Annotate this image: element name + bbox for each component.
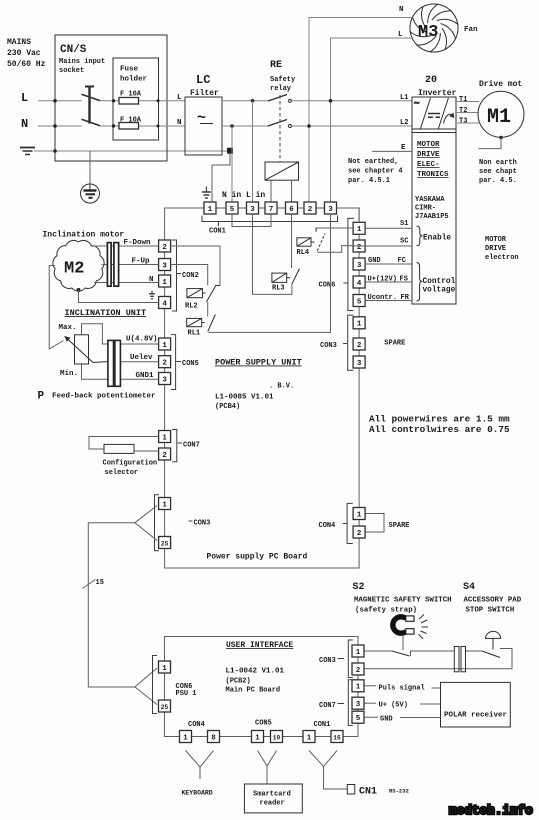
connector CON1 pin 3 at x252.5	[247, 202, 259, 214]
connector CON7 UI bracket	[348, 680, 353, 726]
connector CON7 pin 1	[159, 431, 171, 443]
connector CON6 pin 4	[353, 276, 365, 288]
relay contact RL1	[208, 315, 216, 332]
svg-text:Enable: Enable	[423, 235, 451, 243]
connector CON4 pin 2	[353, 526, 365, 538]
svg-text:3: 3	[357, 262, 362, 270]
svg-text:Main PC Board: Main PC Board	[226, 687, 281, 695]
fan M3 blades	[410, 4, 459, 52]
svg-text:YASKAWA: YASKAWA	[415, 196, 445, 204]
pot terminal block	[108, 340, 121, 386]
svg-text:DRIVE: DRIVE	[485, 245, 506, 253]
svg-text:1: 1	[162, 665, 167, 673]
wire N mains	[38, 125, 82, 127]
svg-text:Puls signal: Puls signal	[379, 685, 425, 693]
svg-text:Mains input: Mains input	[59, 58, 105, 66]
svg-text:medteh.info: medteh.info	[449, 803, 533, 818]
svg-text:Control: Control	[423, 278, 456, 286]
svg-text:see chapt: see chapt	[479, 168, 517, 176]
connector CON3 pin 1	[159, 498, 171, 510]
svg-text:S4: S4	[463, 582, 475, 593]
svg-text:reader: reader	[260, 800, 285, 808]
connector CON3 UI bracket	[348, 640, 353, 678]
connector CON7 bracket	[172, 430, 177, 462]
connector CON2 pin 3	[159, 259, 171, 271]
wire M2 F-Up	[102, 264, 159, 266]
connector CON6 UI pin 1	[159, 661, 171, 673]
connector CON3 spare pin 1	[353, 317, 365, 329]
svg-text:RE: RE	[270, 60, 282, 71]
svg-text:5: 5	[230, 206, 235, 214]
connector CON6 label	[344, 282, 348, 284]
connector CON7 UI pin 5	[352, 711, 364, 723]
CN/S mains input socket box	[55, 35, 167, 161]
wire L in to pin3	[252, 101, 254, 203]
svg-text:electron: electron	[485, 254, 519, 262]
svg-text:L2: L2	[400, 119, 408, 127]
inverter U1 box	[412, 97, 456, 304]
wire RL4 top to CON6 pin1	[316, 227, 353, 229]
wire CON1 pin3 down to RL1	[208, 214, 330, 332]
brace control voltage	[417, 263, 423, 302]
svg-text:DRIVE: DRIVE	[417, 151, 440, 159]
wire RL2 to RL1	[207, 302, 209, 317]
wire CON7 pin1 to resistor	[89, 437, 159, 450]
svg-text:1: 1	[183, 734, 188, 742]
wire CON4 spare loop	[366, 514, 385, 533]
connector CON7 UI pin 1	[352, 680, 364, 692]
svg-text:1: 1	[208, 206, 213, 214]
svg-text:L: L	[177, 94, 182, 102]
svg-text:Max.: Max.	[59, 324, 77, 332]
svg-text:socket: socket	[59, 67, 84, 75]
svg-text:Drive mot: Drive mot	[479, 80, 522, 89]
svg-text:10: 10	[273, 734, 281, 741]
svg-text:MAGNETIC SAFETY SWITCH: MAGNETIC SAFETY SWITCH	[354, 597, 452, 605]
svg-text:TRONICS: TRONICS	[417, 171, 449, 179]
drive motor M1	[478, 80, 524, 137]
svg-text:8: 8	[211, 734, 216, 742]
connector CON5 UI pin 10	[271, 731, 283, 743]
svg-text:CON4: CON4	[188, 721, 205, 729]
wire N switch to fuse	[100, 125, 185, 127]
svg-text:MAINS: MAINS	[7, 38, 31, 47]
svg-text:selector: selector	[105, 469, 139, 477]
svg-text:CIMR-: CIMR-	[415, 205, 436, 213]
svg-text:1: 1	[255, 734, 260, 742]
connector CON5 bracket	[171, 335, 176, 390]
connector CON6 pin 1	[353, 222, 365, 234]
svg-text:1: 1	[162, 279, 167, 287]
earth circle symbol below CN/S	[81, 151, 100, 203]
connector CON1 pin 3 at x330.5	[325, 202, 337, 214]
svg-text:CON1: CON1	[209, 228, 226, 236]
connector CON1 label	[218, 222, 220, 226]
wire M2 to CON2 pin4	[79, 290, 159, 303]
wire GND polar	[365, 716, 379, 718]
svg-text:L1-0042 V1.01: L1-0042 V1.01	[226, 668, 285, 676]
svg-text:CON6: CON6	[319, 281, 336, 289]
svg-text:2: 2	[356, 667, 361, 675]
svg-text:N in L in: N in L in	[222, 191, 265, 200]
power supply PC board outline	[165, 208, 360, 568]
cable count tick	[83, 580, 96, 589]
connector CON7 UI label	[338, 703, 345, 705]
relay contact RL2	[206, 285, 220, 302]
svg-text:USER INTERFACE: USER INTERFACE	[226, 641, 293, 650]
svg-text:FR: FR	[401, 294, 410, 302]
svg-text:N: N	[149, 276, 154, 284]
svg-text:T2: T2	[459, 107, 467, 115]
smartcard reader box	[244, 784, 302, 813]
connector CON6 bracket	[348, 218, 354, 310]
svg-text:Feed-back potentiometer: Feed-back potentiometer	[52, 393, 156, 401]
wire CON1 pin6 to RL3 contact	[291, 214, 293, 268]
wire magnet actuator	[402, 636, 404, 650]
svg-text:1: 1	[357, 321, 362, 329]
motor drive electronics text	[417, 141, 449, 179]
RE actuator dashed link	[279, 95, 281, 162]
connector CON2 bracket	[172, 240, 177, 311]
connector CON2 label	[177, 273, 181, 275]
relay coil RL3	[272, 273, 290, 282]
wire L RE to inverter L1	[290, 100, 412, 102]
wire S4 return	[365, 649, 513, 669]
connector CON1 pin 2 at x310	[304, 202, 316, 214]
yaskawa type text	[415, 196, 449, 221]
svg-text:3: 3	[162, 376, 167, 384]
svg-text:Non earth: Non earth	[479, 159, 517, 167]
svg-text:N: N	[21, 117, 28, 131]
RE safety relay	[270, 60, 296, 93]
connector CON3 UI label	[338, 658, 345, 660]
connector CON5 UI pin 1	[252, 731, 264, 743]
connector CON6 pin 2	[353, 240, 365, 252]
connector CON6 pin 5	[353, 295, 365, 307]
cable joint S2	[454, 647, 465, 672]
junction dots mains	[53, 99, 159, 153]
wire CON1 pin3 to CON6 pin1	[337, 208, 360, 222]
svg-text:U+(12V): U+(12V)	[368, 276, 397, 284]
svg-text:Safety: Safety	[270, 76, 296, 84]
svg-text:6: 6	[289, 206, 294, 214]
wire M2 N	[94, 282, 159, 284]
wire U+ 5V	[365, 702, 377, 704]
svg-text:1: 1	[356, 649, 361, 657]
svg-text:CON3: CON3	[319, 657, 336, 665]
relay coil RL2	[187, 289, 206, 298]
svg-text:E: E	[401, 144, 406, 152]
motor M2	[53, 240, 104, 291]
svg-text:5: 5	[356, 715, 361, 723]
junction dot N in	[230, 124, 234, 128]
connector CON2 pin 2	[159, 240, 171, 252]
wire RE coil to pin6	[291, 180, 293, 202]
svg-text:POWER SUPPLY UNIT: POWER SUPPLY UNIT	[215, 358, 302, 368]
svg-text:par. 4.5.1: par. 4.5.1	[348, 177, 390, 185]
cable crow foot UI CON6	[135, 668, 157, 705]
resistor configuration selector	[104, 444, 134, 453]
connector CON7 pin 2	[159, 448, 171, 460]
connector CON5 pin 3	[159, 373, 171, 385]
svg-text:(PCB2): (PCB2)	[226, 678, 251, 686]
RE coil box	[265, 162, 299, 180]
ground mains	[20, 148, 35, 155]
connector CON3 spare label	[343, 343, 347, 345]
relay coil RL4	[297, 238, 315, 246]
svg-text:N: N	[177, 119, 182, 127]
svg-text:Uelev: Uelev	[130, 354, 153, 362]
connector CON1 UI pin 1	[303, 731, 315, 743]
svg-text:1: 1	[357, 511, 362, 519]
wire link vertical	[219, 246, 221, 286]
svg-text:20: 20	[425, 75, 437, 86]
POLAR receiver box	[441, 682, 511, 727]
svg-text:P: P	[38, 391, 45, 403]
connector CON6 UI pin 25	[159, 700, 171, 712]
connector CON6 pin 3	[353, 258, 365, 270]
svg-text:2: 2	[357, 342, 362, 350]
svg-text:~: ~	[414, 99, 419, 109]
brace enable	[417, 226, 423, 246]
svg-text:SC: SC	[400, 238, 408, 246]
svg-text:U+ (5V): U+ (5V)	[379, 702, 408, 710]
wire RL3 to CON1 pin3 vertical	[253, 284, 292, 294]
svg-text:2: 2	[357, 244, 362, 252]
svg-text:CON2: CON2	[182, 272, 199, 280]
svg-text:L: L	[21, 91, 28, 105]
svg-text:CON1: CON1	[314, 721, 331, 729]
wire N filter to RE contact	[222, 125, 268, 127]
wire S1 enable	[365, 227, 412, 229]
cable crow foot smartcard	[258, 751, 277, 767]
svg-text:GND: GND	[368, 257, 381, 265]
wire earth mains	[34, 150, 227, 152]
svg-text:relay: relay	[270, 85, 292, 93]
svg-text:2: 2	[357, 530, 362, 538]
svg-text:3: 3	[328, 206, 333, 214]
svg-text:holder: holder	[120, 76, 147, 84]
junction dot M2 bottom	[77, 288, 81, 292]
svg-text:CON4: CON4	[319, 522, 336, 530]
fan M3	[410, 4, 478, 52]
junction dot L in	[251, 99, 255, 103]
connector CON3 spare pin 2	[353, 338, 365, 350]
svg-text:16: 16	[333, 734, 341, 741]
connector CON1 pin 7 at x271	[265, 202, 277, 214]
connector CON5 label	[176, 361, 181, 363]
svg-text:CON7: CON7	[183, 442, 200, 450]
svg-text:RL3: RL3	[272, 284, 285, 292]
svg-text:RL1: RL1	[188, 330, 201, 338]
svg-text:CON5: CON5	[255, 720, 272, 728]
connector CON3 UI pin 2	[352, 663, 364, 675]
note not earthed	[348, 158, 403, 185]
ground symbol at CON1 pin1	[202, 187, 211, 199]
svg-text:MOTOR: MOTOR	[417, 141, 440, 149]
wire T1	[456, 101, 479, 103]
wire Puls signal	[365, 685, 377, 687]
junction dot N feed	[307, 124, 311, 128]
wire RL4 to CON6 pin2	[317, 246, 352, 253]
svg-text:Ucontr.: Ucontr.	[368, 294, 397, 302]
wire fan N	[309, 18, 413, 203]
svg-text:Not earthed,: Not earthed,	[348, 158, 398, 166]
M2 terminal block	[107, 243, 118, 287]
wire L filter to RE contact	[222, 100, 268, 102]
connector CON3 pin 25	[159, 537, 171, 549]
svg-text:Smartcard: Smartcard	[253, 791, 291, 799]
svg-text:see chapter 4: see chapter 4	[348, 168, 403, 176]
svg-text:M3: M3	[418, 23, 438, 42]
svg-text:SPARE: SPARE	[384, 340, 405, 348]
svg-text:GND1: GND1	[136, 372, 155, 380]
wire L mains	[38, 100, 82, 102]
wire CON3 pin1 to S2	[365, 650, 393, 652]
svg-text:. B.V.: . B.V.	[269, 383, 294, 391]
svg-text:3: 3	[250, 206, 255, 214]
connector CON3 bracket	[155, 495, 160, 551]
svg-text:N: N	[399, 6, 404, 14]
switch S mains double-pole	[82, 87, 101, 126]
svg-text:voltage: voltage	[423, 287, 456, 295]
svg-text:50/60 Hz: 50/60 Hz	[7, 60, 46, 69]
connector CON3 UI pin 1	[352, 645, 364, 657]
svg-text:Inclination motor: Inclination motor	[43, 231, 125, 240]
connector CON6 UI bracket	[153, 656, 158, 714]
svg-text:Configuration: Configuration	[103, 460, 158, 468]
connector CON2 pin 4	[159, 297, 171, 309]
connector CON1 pin 1 at x210	[204, 202, 216, 214]
fuse holder box	[113, 58, 159, 140]
wire M1 earth stub	[479, 136, 503, 149]
cable crow foot keyboard	[186, 751, 214, 768]
svg-text:ELEC-: ELEC-	[417, 161, 440, 169]
svg-text:All powerwires are 1.5 mm: All powerwires are 1.5 mm	[369, 414, 510, 425]
connector CON5 pin 2	[159, 356, 171, 368]
fuse F1 10A	[119, 91, 142, 105]
relay coil RL1	[187, 318, 205, 326]
wire jumper pin5 to pin7	[232, 214, 271, 227]
svg-text:25: 25	[161, 704, 169, 711]
svg-text:RL4: RL4	[297, 249, 310, 257]
svg-text:LC: LC	[196, 73, 210, 87]
relay contact RL3	[292, 269, 300, 285]
stop button symbol	[486, 631, 501, 649]
svg-text:PSU 1: PSU 1	[176, 690, 197, 698]
connector CON3 label	[189, 520, 193, 522]
svg-text:T1: T1	[459, 96, 467, 104]
svg-text:F-Up: F-Up	[132, 258, 151, 266]
wire GND FC	[365, 263, 412, 265]
svg-text:(safety strap): (safety strap)	[355, 607, 417, 615]
svg-text:Min.: Min.	[60, 370, 78, 378]
connector CON1 bracket	[202, 216, 338, 222]
wire M2 F-Down	[91, 245, 159, 247]
svg-text:2: 2	[162, 244, 167, 252]
wire L switch to fuse	[100, 100, 185, 102]
wire N RE to inverter L2	[290, 125, 412, 127]
svg-text:1: 1	[307, 734, 312, 742]
svg-text:J7AAB1P5: J7AAB1P5	[415, 213, 449, 221]
svg-text:M1: M1	[487, 106, 511, 129]
wire U+12V FS	[365, 281, 412, 283]
svg-text:U(4.8V): U(4.8V)	[126, 336, 158, 344]
wire pot top to U4.8V	[82, 324, 159, 344]
svg-text:15: 15	[96, 579, 104, 587]
wire RE coil to pin7	[270, 180, 272, 202]
svg-text:L1-0085 V1.01: L1-0085 V1.01	[215, 394, 274, 402]
switch S4 contact	[482, 651, 500, 658]
svg-text:25: 25	[161, 540, 169, 547]
connector CON7 UI pin 3	[352, 697, 364, 709]
svg-text:7: 7	[269, 206, 274, 214]
svg-text:All controlwires are 0.75: All controlwires are 0.75	[369, 424, 510, 435]
wire M2 left link	[49, 266, 63, 350]
wire Ucontr FR	[365, 300, 412, 302]
svg-text:3: 3	[357, 360, 362, 368]
connector CON4 label	[343, 523, 347, 525]
switch S2 contact	[392, 651, 410, 656]
wire resistor to CON7 pin2	[134, 450, 159, 452]
svg-text:2: 2	[308, 206, 313, 214]
svg-text:2: 2	[162, 452, 167, 460]
wire F-Up to RL2	[171, 265, 208, 286]
wire after joint to S4	[466, 650, 482, 652]
cable crow foot PSU CON3	[135, 506, 157, 541]
svg-text:3: 3	[162, 262, 167, 270]
svg-text:Fuse: Fuse	[120, 66, 139, 74]
svg-text:CON7: CON7	[319, 702, 336, 710]
wire pot bottom to GND1	[82, 364, 159, 379]
svg-text:KEYBOARD: KEYBOARD	[182, 790, 213, 797]
connector CON1 pin 5 at x232	[226, 202, 238, 214]
wire F-Down to link	[171, 245, 220, 247]
svg-text:S2: S2	[353, 582, 365, 593]
svg-text:M2: M2	[64, 260, 84, 279]
connector CON2 pin 1	[159, 275, 171, 287]
ground at CON2 pin4	[149, 291, 155, 299]
svg-text:4: 4	[162, 300, 167, 308]
svg-text:F-Down: F-Down	[124, 239, 152, 247]
connector CON4 bracket	[347, 503, 353, 543]
svg-text:CON5: CON5	[182, 360, 199, 368]
svg-text:2: 2	[162, 360, 167, 368]
svg-text:CN/S: CN/S	[60, 44, 87, 56]
svg-text:S1: S1	[400, 220, 408, 228]
wire pot wiper to Uelev	[108, 361, 159, 363]
relay contact RL4	[316, 227, 325, 250]
svg-text:Power supply PC Board: Power supply PC Board	[207, 553, 308, 562]
svg-text:FC: FC	[398, 257, 406, 265]
svg-text:4: 4	[357, 280, 362, 288]
magnet rays	[419, 615, 429, 639]
svg-text:230 Vac: 230 Vac	[7, 49, 41, 58]
svg-text:FS: FS	[400, 276, 408, 284]
mains source labels	[7, 38, 46, 69]
svg-text:1: 1	[162, 342, 167, 350]
svg-text:1: 1	[162, 501, 167, 509]
wire SC enable return	[352, 245, 412, 247]
svg-text:1: 1	[162, 434, 167, 442]
svg-text:5: 5	[357, 298, 362, 306]
svg-text:CON3: CON3	[194, 520, 211, 528]
svg-text:SPARE: SPARE	[389, 522, 410, 530]
potentiometer P wiper arrow	[64, 336, 108, 363]
svg-text:CN1: CN1	[359, 787, 377, 798]
connector CON4 UI pin 8	[208, 731, 220, 743]
potentiometer P body	[75, 335, 89, 364]
